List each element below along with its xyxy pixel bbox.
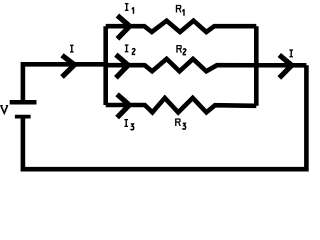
wire: branch 3 with resistor R3 zigzag [106, 98, 257, 113]
label I2 [125, 44, 129, 52]
node: right bus (parallel junction, vertical) [254, 26, 259, 106]
label I1 [125, 3, 129, 11]
arrow on right output wire (current I, pointing right) [279, 55, 291, 78]
label R3 [175, 118, 181, 126]
arrow on main wire (current I, pointing right) [62, 55, 75, 77]
arrow on branch 1 (current I1) [117, 16, 129, 39]
battery label V [0, 106, 8, 114]
wire: branch 2 with resistor R2 zigzag, continues right to output corner [106, 59, 307, 71]
arrow on branch 2 (current I2) [116, 55, 128, 78]
battery V top plate (long, positive) [10, 100, 37, 105]
label I3 [124, 119, 128, 127]
wire: main top-left horizontal with corner down to battery positive [23, 64, 108, 102]
label R1 [176, 5, 182, 13]
label R2 [176, 45, 182, 53]
wire: branch 1 with resistor R1 zigzag [106, 21, 257, 32]
label I (output current, right) [289, 49, 293, 57]
wire: outer loop bottom and right side (battery negative to right corner) [23, 65, 307, 169]
node: left bus (parallel junction, vertical) [103, 26, 108, 105]
arrow on branch 3 (current I3) [117, 94, 129, 117]
label I (main current, left) [70, 45, 74, 53]
battery V bottom plate (short, negative) [15, 115, 31, 119]
